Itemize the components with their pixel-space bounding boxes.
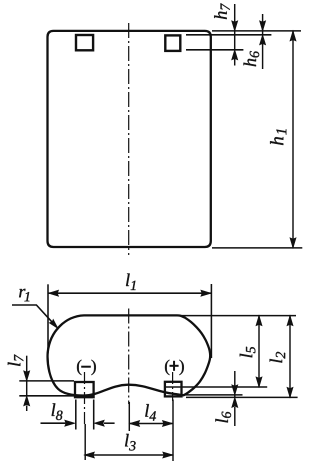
- terminal square right front view: [165, 35, 180, 51]
- extension line top edge top view: [180, 315, 296, 317]
- centerline front view: [128, 23, 130, 255]
- dimension h1: [292, 31, 294, 248]
- dimension l1: [47, 284, 49, 353]
- centerline positive terminal: [172, 372, 174, 401]
- extension line terminal top left: [19, 380, 74, 382]
- dimension l2: [289, 316, 291, 398]
- centerline top view: [128, 309, 130, 405]
- dimension h6: [262, 14, 264, 35]
- extension line top edge: [212, 30, 301, 32]
- extension line bottom l2: [186, 396, 298, 398]
- dimension l6: [234, 371, 236, 397]
- dimension h7: [234, 4, 236, 50]
- terminal square left front view: [76, 35, 93, 50]
- battery top view outline: [48, 315, 211, 395]
- dimension l4: [130, 423, 173, 425]
- extension line terminal bottom: [186, 49, 243, 51]
- extension line bottom edge: [212, 247, 302, 249]
- extension line l3 left: [84, 424, 86, 460]
- centerline negative terminal: [84, 372, 86, 424]
- extension line terminal top: [186, 34, 271, 36]
- centerline extension l4 left: [128, 402, 130, 431]
- dimension l7: [26, 356, 28, 396]
- extension line l4 l3 right: [172, 400, 174, 462]
- terminal square negative top view: [75, 382, 94, 397]
- battery body front view outline: [48, 31, 211, 247]
- dimension l5: [258, 316, 260, 387]
- dimension l8: [41, 422, 66, 424]
- label negative: [77, 360, 81, 375]
- label r1 with leader: [19, 289, 29, 301]
- extension line square left edge: [75, 400, 77, 430]
- dimension l3: [84, 454, 172, 456]
- label positive: [165, 360, 169, 375]
- extension line square right edge: [93, 400, 95, 430]
- terminal square positive top view: [165, 382, 182, 397]
- extension line trough left: [19, 395, 94, 397]
- extension line l5 bottom: [166, 386, 268, 388]
- extension line trough right: [182, 394, 243, 396]
